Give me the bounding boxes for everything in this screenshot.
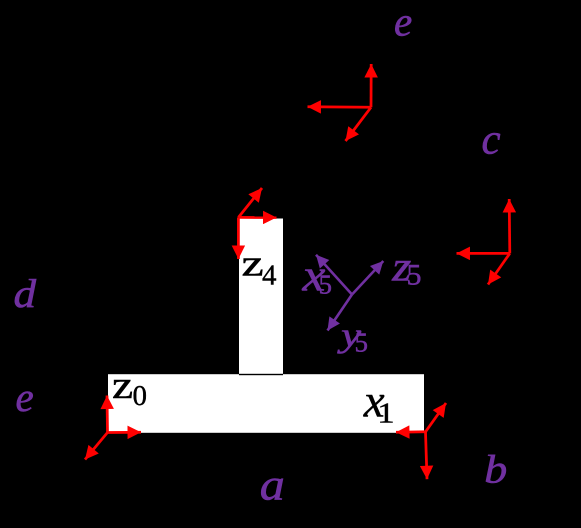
label z4 on vertical link	[242, 243, 278, 292]
svg-text:b: b	[484, 448, 507, 492]
frame 1 axis z arrow (up-right diagonal)	[426, 403, 447, 432]
frame 4 axis x arrow (right)	[238, 216, 276, 219]
label a (bottom)	[260, 461, 285, 509]
label e (left)	[16, 374, 34, 420]
svg-text:1: 1	[377, 396, 394, 429]
svg-text:a: a	[260, 461, 285, 509]
frame c axis arrow (up)	[508, 199, 511, 253]
label z0 on horizontal link	[112, 364, 147, 412]
frame 5 axis z5 arrow (up-right)	[352, 261, 383, 295]
label z5	[391, 242, 421, 291]
label b (bottom right)	[484, 448, 507, 492]
frame e axis arrow (left)	[308, 105, 372, 108]
svg-text:d: d	[14, 272, 37, 316]
label e (top)	[394, 0, 412, 45]
frame 0 axis z0 arrow (up)	[106, 396, 109, 433]
frame 0 axis y arrow (down-left diagonal)	[85, 433, 108, 460]
frame 5 axis x5 arrow (up-left)	[316, 255, 352, 295]
frame 1 axis y arrow (down)	[426, 432, 428, 479]
svg-text:5: 5	[319, 270, 333, 300]
label d (left)	[14, 272, 37, 316]
label c (right)	[482, 116, 501, 163]
frame 5 axis y5 arrow (down-left)	[328, 295, 353, 331]
label x1 on horizontal link	[363, 376, 395, 429]
svg-text:e: e	[394, 0, 412, 45]
svg-text:c: c	[482, 116, 501, 163]
frame 0 axis x arrow (right)	[108, 431, 142, 434]
link a (horizontal white bar)	[108, 374, 424, 433]
frame 4 axis z4 arrow (down)	[237, 217, 240, 259]
frame 4 axis y arrow (up-right diagonal)	[238, 188, 262, 217]
link d (vertical white bar)	[239, 219, 283, 376]
label x5	[301, 249, 332, 301]
frame e axis arrow (up)	[370, 64, 373, 107]
frame e axis arrow (down-left diagonal)	[346, 107, 372, 141]
svg-text:5: 5	[355, 328, 369, 358]
label y5	[337, 317, 368, 358]
frame c axis arrow (left)	[457, 252, 510, 255]
svg-text:z: z	[112, 364, 133, 407]
svg-text:5: 5	[407, 258, 422, 291]
svg-text:e: e	[16, 374, 34, 420]
frame c axis arrow (down-left diagonal)	[488, 253, 510, 284]
svg-text:0: 0	[133, 380, 148, 412]
svg-text:4: 4	[262, 260, 277, 292]
svg-text:z: z	[242, 243, 264, 284]
frame 1 axis x1 arrow (left)	[396, 430, 426, 433]
